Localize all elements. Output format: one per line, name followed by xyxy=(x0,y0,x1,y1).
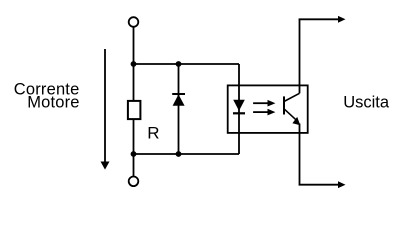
diode D1 xyxy=(172,64,185,154)
node junction top diode xyxy=(176,61,182,67)
terminal top xyxy=(129,17,139,27)
phototransistor Q1 xyxy=(284,93,300,125)
output arrow top xyxy=(299,16,346,23)
light arrow upper xyxy=(253,100,275,107)
emitter wire down xyxy=(299,124,301,185)
LED branch wire xyxy=(238,64,240,154)
wire rail to resistor xyxy=(133,64,135,101)
resistor R xyxy=(128,101,140,119)
terminal bottom xyxy=(129,177,139,187)
light arrow lower xyxy=(253,109,275,116)
svg-text:R: R xyxy=(147,124,159,143)
wire bottom rail to terminal xyxy=(133,154,135,177)
wire top terminal to top rail xyxy=(133,27,135,64)
current direction arrow xyxy=(101,49,110,170)
wire top rail xyxy=(134,63,240,65)
svg-text:Uscita: Uscita xyxy=(343,93,390,111)
optocoupler U1 box xyxy=(228,85,308,132)
collector wire up xyxy=(299,19,301,93)
LED of optocoupler xyxy=(233,100,245,114)
wire resistor to bottom rail xyxy=(133,119,135,154)
output arrow bottom xyxy=(299,181,346,188)
node junction bottom left xyxy=(131,151,137,157)
node junction bottom diode xyxy=(176,151,182,157)
svg-text:Motore: Motore xyxy=(27,94,79,112)
wire bottom rail xyxy=(134,153,240,155)
node junction top left xyxy=(131,61,137,67)
label Corrente Motore xyxy=(14,80,80,111)
